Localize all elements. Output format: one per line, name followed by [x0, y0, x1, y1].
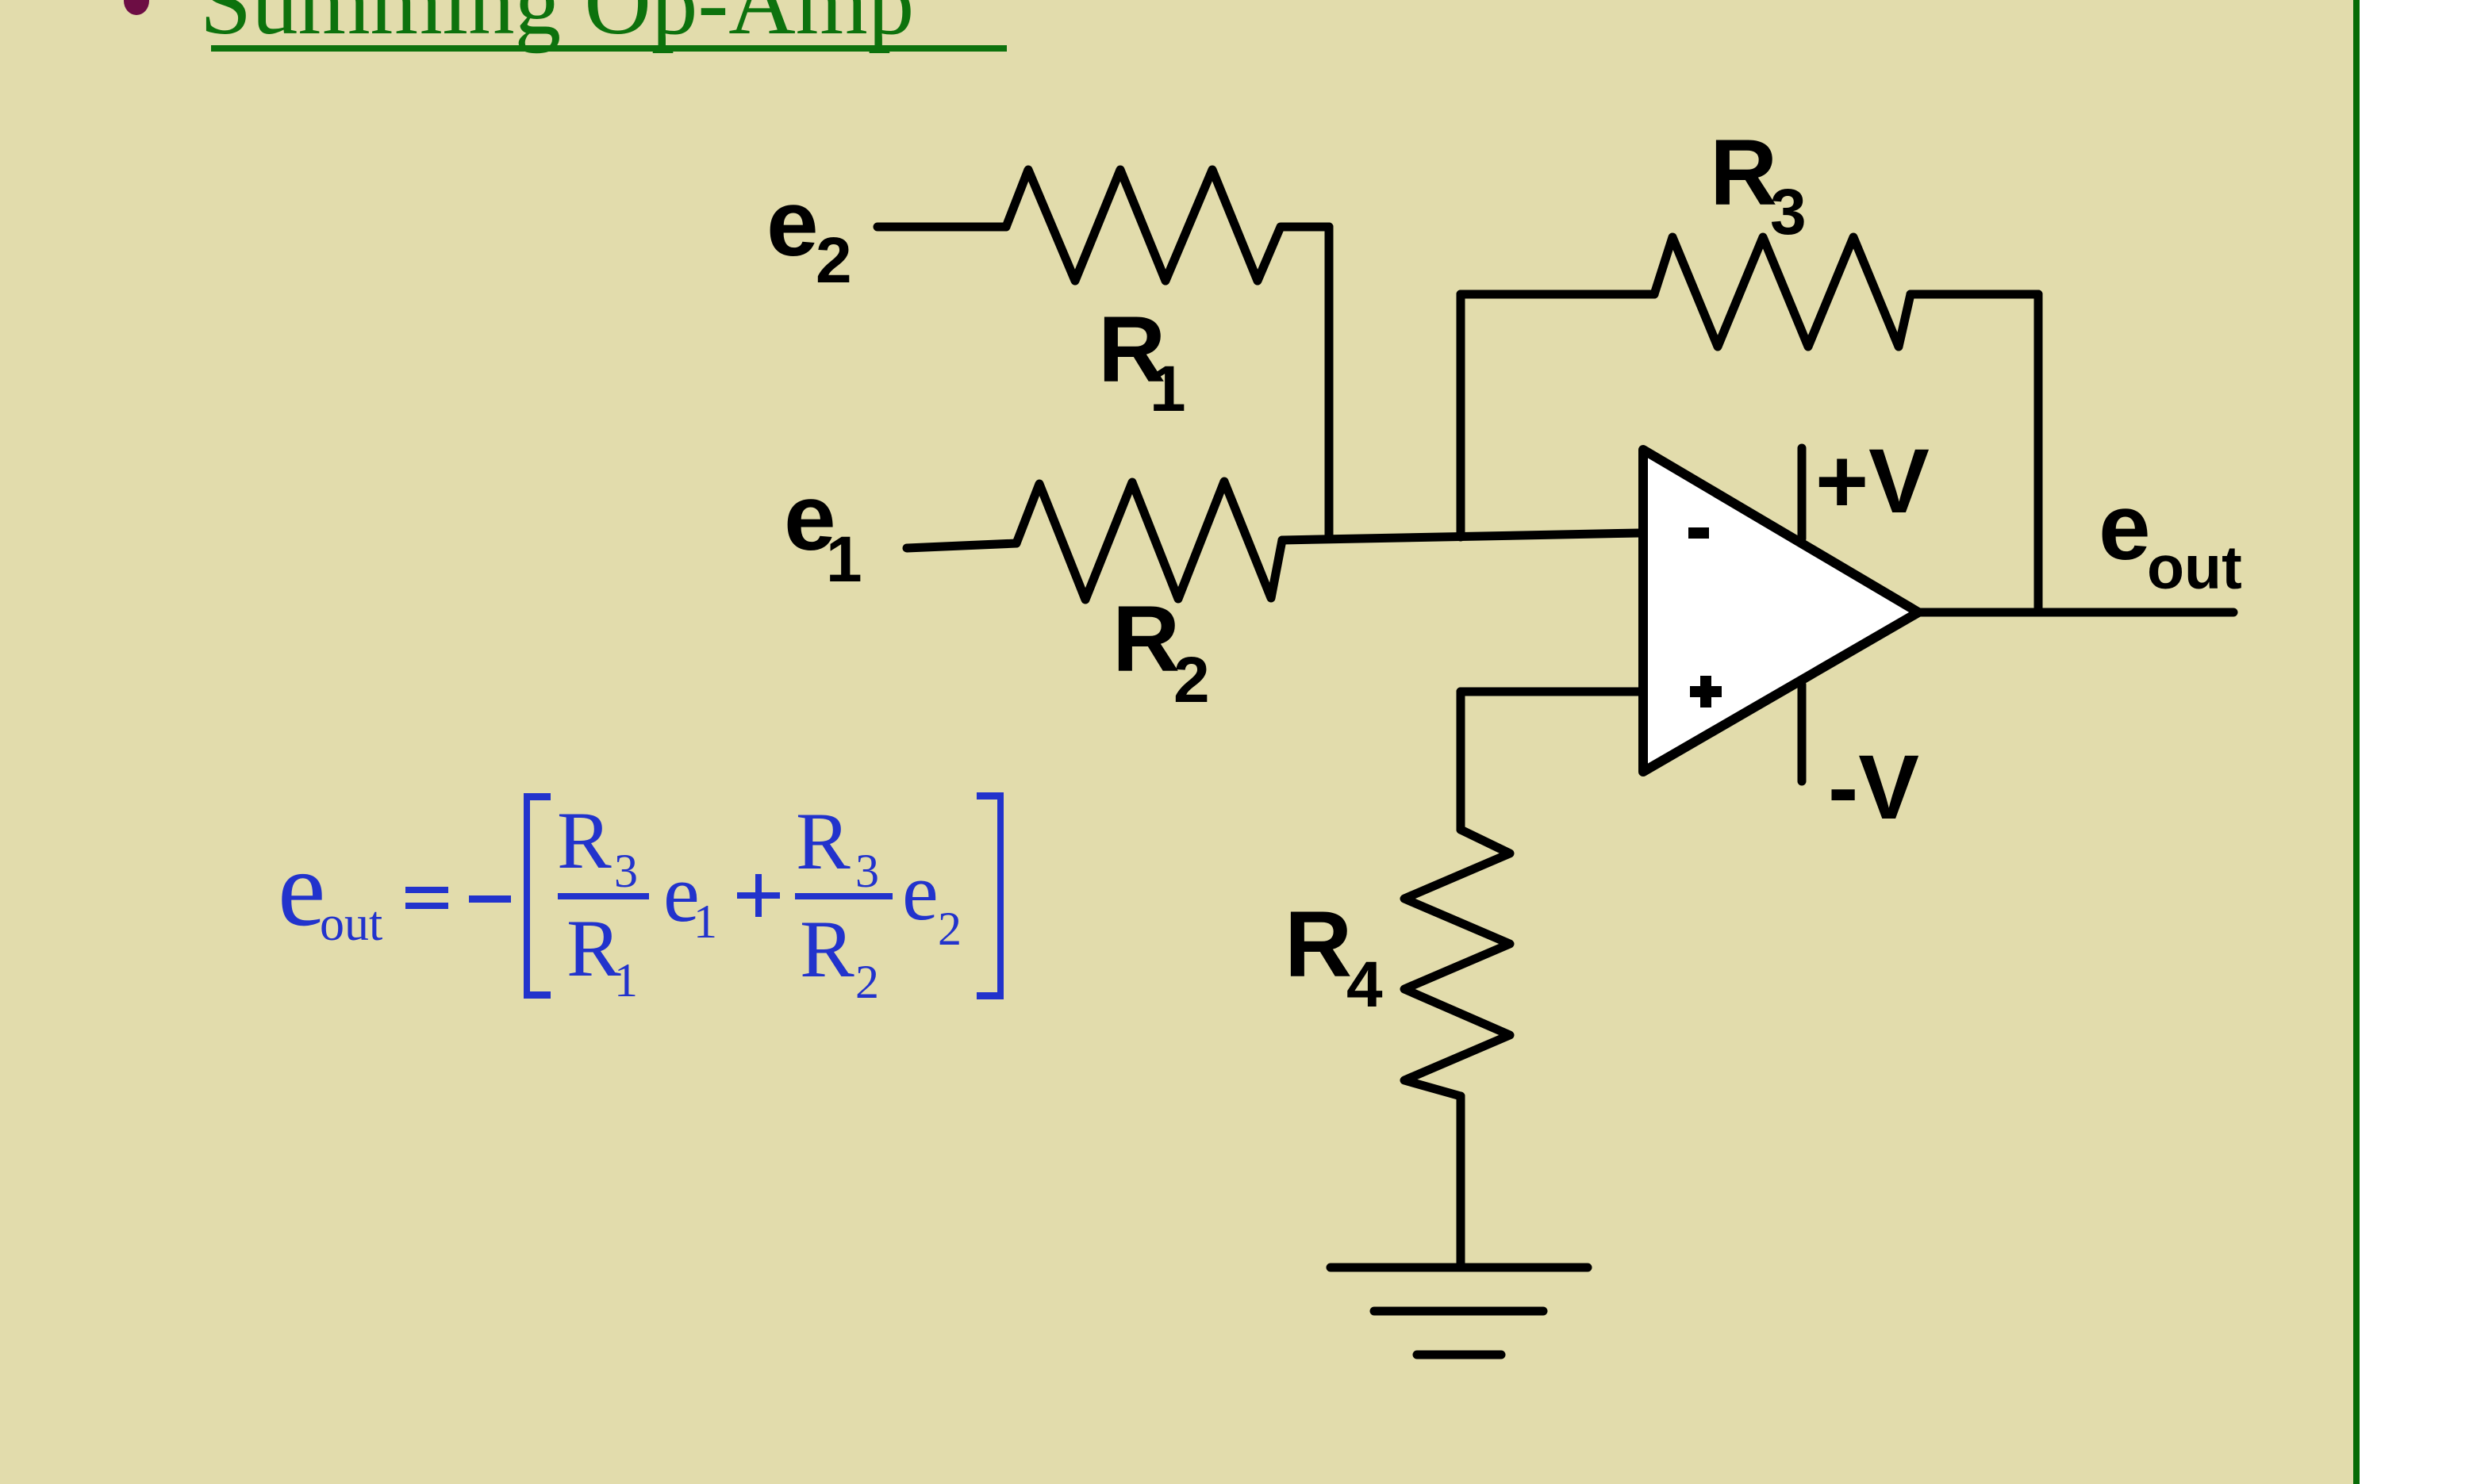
wire R4 to ground — [1457, 1096, 1465, 1267]
op-amp non-inverting input plus sign — [1690, 686, 1722, 697]
resistor R1 — [1006, 170, 1329, 281]
svg-text:3: 3 — [614, 845, 638, 897]
svg-text:out: out — [2147, 534, 2242, 602]
+V supply tick — [1798, 448, 1807, 539]
svg-text:3: 3 — [1770, 176, 1807, 248]
wire output eout — [1918, 608, 2233, 617]
wire summing node to op-amp inverting input — [1282, 533, 1639, 540]
wire down to R4 — [1457, 692, 1465, 830]
svg-text:1: 1 — [826, 523, 862, 596]
wire R3 to output corner — [1911, 290, 2038, 299]
op-amp U1 triangle — [1643, 450, 1918, 772]
-V supply tick — [1798, 684, 1807, 781]
svg-text:1: 1 — [1150, 353, 1186, 425]
svg-text:1: 1 — [614, 954, 638, 1007]
svg-text:out: out — [320, 897, 382, 951]
svg-text:+V: +V — [1815, 431, 1930, 532]
wire from R1 down to summing node — [1325, 227, 1334, 539]
wire feedback left vertical — [1457, 294, 1465, 537]
ground symbol — [1331, 1264, 1588, 1272]
svg-text:2: 2 — [1173, 644, 1210, 716]
resistor R3 — [1654, 237, 1911, 347]
svg-text:R: R — [557, 796, 612, 886]
svg-text:e: e — [278, 830, 325, 949]
svg-text:R: R — [1710, 121, 1777, 225]
wire feedback right vertical down to output — [2034, 294, 2043, 612]
svg-text:1: 1 — [693, 895, 717, 948]
svg-text:2: 2 — [855, 956, 879, 1008]
wire e1 input — [907, 543, 1016, 548]
svg-text:R: R — [800, 904, 854, 995]
svg-text:R: R — [1285, 892, 1352, 997]
resistor R2 — [1016, 481, 1282, 600]
op-amp inverting input minus sign — [1688, 527, 1709, 539]
svg-text:e: e — [2099, 475, 2151, 580]
wire feedback top horizontal — [1461, 290, 1654, 299]
svg-text:3: 3 — [855, 845, 879, 897]
svg-text:R: R — [566, 903, 621, 994]
formula: eout = -[ R3/R1 e1 + R3/R2 e2 ] — [278, 792, 1004, 1008]
slide right border frame — [2353, 0, 2360, 1484]
svg-text:e: e — [902, 847, 939, 938]
wire op-amp non-inverting input horizontal — [1461, 688, 1639, 696]
svg-text:e: e — [766, 171, 819, 276]
svg-text:2: 2 — [816, 224, 852, 297]
svg-text:-V: -V — [1828, 737, 1919, 838]
svg-text:2: 2 — [938, 903, 962, 955]
svg-text:4: 4 — [1346, 949, 1383, 1021]
svg-text:R: R — [796, 796, 851, 887]
wire e2 input — [878, 223, 1006, 232]
resistor R4 — [1404, 830, 1510, 1096]
svg-text:R: R — [1112, 587, 1180, 692]
title bullet — [124, 0, 149, 15]
